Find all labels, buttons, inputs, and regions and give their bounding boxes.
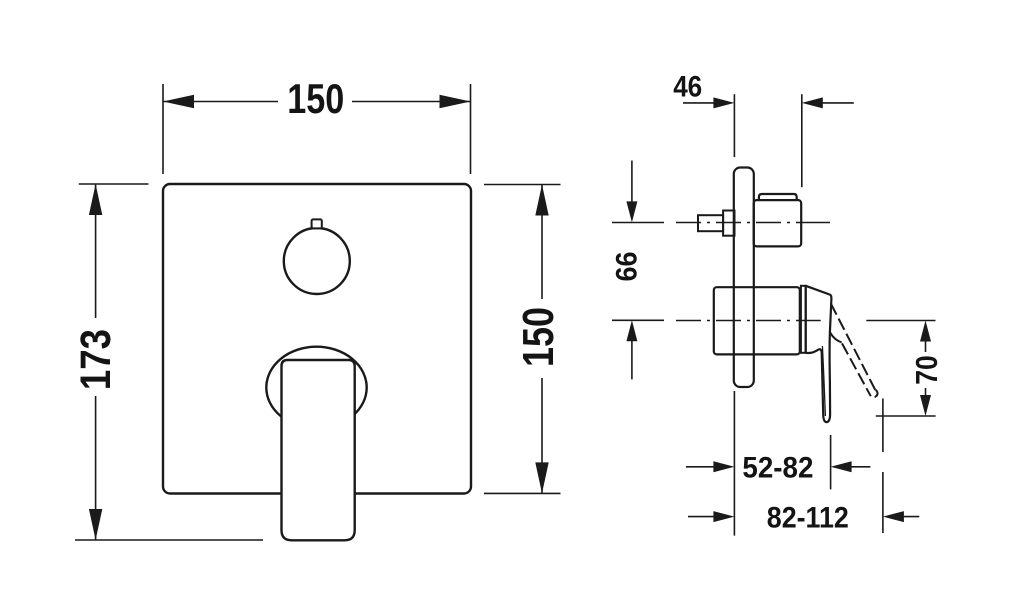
- lever alternate position (dashed) tip cap: [873, 390, 878, 398]
- bottom axis centerline right segment / dim 70 top extension: [866, 320, 935, 322]
- svg-text:52-82: 52-82: [742, 452, 813, 485]
- dim 52-82: left arrow: [713, 461, 734, 472]
- supply spigot pipe: [698, 215, 723, 231]
- dim 150 right: bottom arrow: [535, 462, 548, 493]
- dim 70: top arrow: [920, 321, 931, 342]
- dim 46: right arrow: [802, 97, 823, 108]
- dim 150 right: top extension line: [484, 184, 561, 186]
- dim 150 top: left arrow: [163, 95, 194, 109]
- dim 46: left arrow: [713, 97, 734, 108]
- dim 150 top: right arrow: [440, 95, 471, 109]
- lever alternate position (dashed) inner edge: [842, 343, 871, 396]
- dim 46: dimension line right tail: [822, 102, 854, 104]
- dim 82-112: left arrow: [713, 511, 734, 522]
- dim 173 left: dimension line: [95, 184, 97, 318]
- lever sleeve: [801, 286, 806, 353]
- dim 66: top tail: [631, 161, 633, 203]
- dim 66: bottom extension line: [612, 319, 664, 321]
- lever alternate position (dashed) outer edge: [831, 304, 876, 391]
- dim 70: bottom arrow: [920, 395, 931, 416]
- wall flange (side view): [734, 168, 754, 388]
- thermostat knob: [284, 228, 350, 294]
- dim 52-82: left tail: [686, 466, 714, 468]
- dim 52-82: right arrow: [831, 461, 852, 472]
- dim 82-112: right extension line: [882, 399, 884, 453]
- dim 66: bottom tail: [631, 341, 633, 379]
- knob index tab: [312, 219, 322, 228]
- svg-text:150: 150: [514, 307, 563, 367]
- bottom valve body: [714, 287, 800, 354]
- svg-text:150: 150: [287, 75, 344, 122]
- svg-text:82-112: 82-112: [767, 502, 849, 535]
- dim 46: dimension line left tail: [683, 102, 714, 104]
- lever handle (front): [282, 360, 355, 540]
- top valve cartridge cap: [759, 194, 797, 200]
- lever escutcheon: [266, 347, 366, 429]
- svg-text:46: 46: [673, 71, 702, 104]
- dim 173 left: bottom extension line: [75, 539, 263, 541]
- dim 150 right: dimension line: [541, 185, 543, 300]
- lever pivot arc: [830, 332, 842, 342]
- supply spigot collar: [723, 211, 734, 236]
- dim 150 top: extension line left: [162, 84, 164, 174]
- dim 82-112: right tail: [903, 516, 919, 518]
- bottom axis centerline: [676, 320, 821, 322]
- dim 70: dimension line: [925, 341, 927, 352]
- dim 46: left extension line: [733, 94, 735, 157]
- dim 173 left: top arrow: [89, 184, 102, 215]
- dim 66: bottom arrow: [626, 320, 637, 341]
- dim 52-82: right extension line: [830, 435, 832, 489]
- dim 52-82: left extension line (wall plane): [733, 391, 735, 536]
- dim 173 left: bottom arrow: [89, 509, 102, 540]
- svg-text:66: 66: [611, 252, 644, 282]
- dim 150 right: bottom extension line: [484, 492, 561, 494]
- dim 70: bottom extension line: [876, 415, 936, 417]
- lever handle (side view): [806, 286, 832, 422]
- dim 82-112: right arrow: [883, 511, 904, 522]
- cover plate (front view): [163, 184, 471, 494]
- dim 52-82: right tail: [851, 466, 870, 468]
- dim 150 top: dimension line: [163, 101, 278, 103]
- dim 66: top arrow: [626, 201, 637, 222]
- dim 46: right extension line: [801, 94, 803, 187]
- top axis centerline: [676, 222, 830, 224]
- dim 66: top extension line: [612, 222, 664, 224]
- dim 82-112: left tail: [688, 516, 714, 518]
- lever crease line: [822, 346, 825, 416]
- dim 173 left: top extension line: [79, 183, 149, 185]
- dim 150 top: extension line right: [470, 84, 472, 174]
- dim 150 right: top arrow: [535, 185, 548, 216]
- svg-text:70: 70: [909, 355, 944, 385]
- svg-text:173: 173: [72, 329, 120, 390]
- top valve cartridge body: [754, 200, 802, 246]
